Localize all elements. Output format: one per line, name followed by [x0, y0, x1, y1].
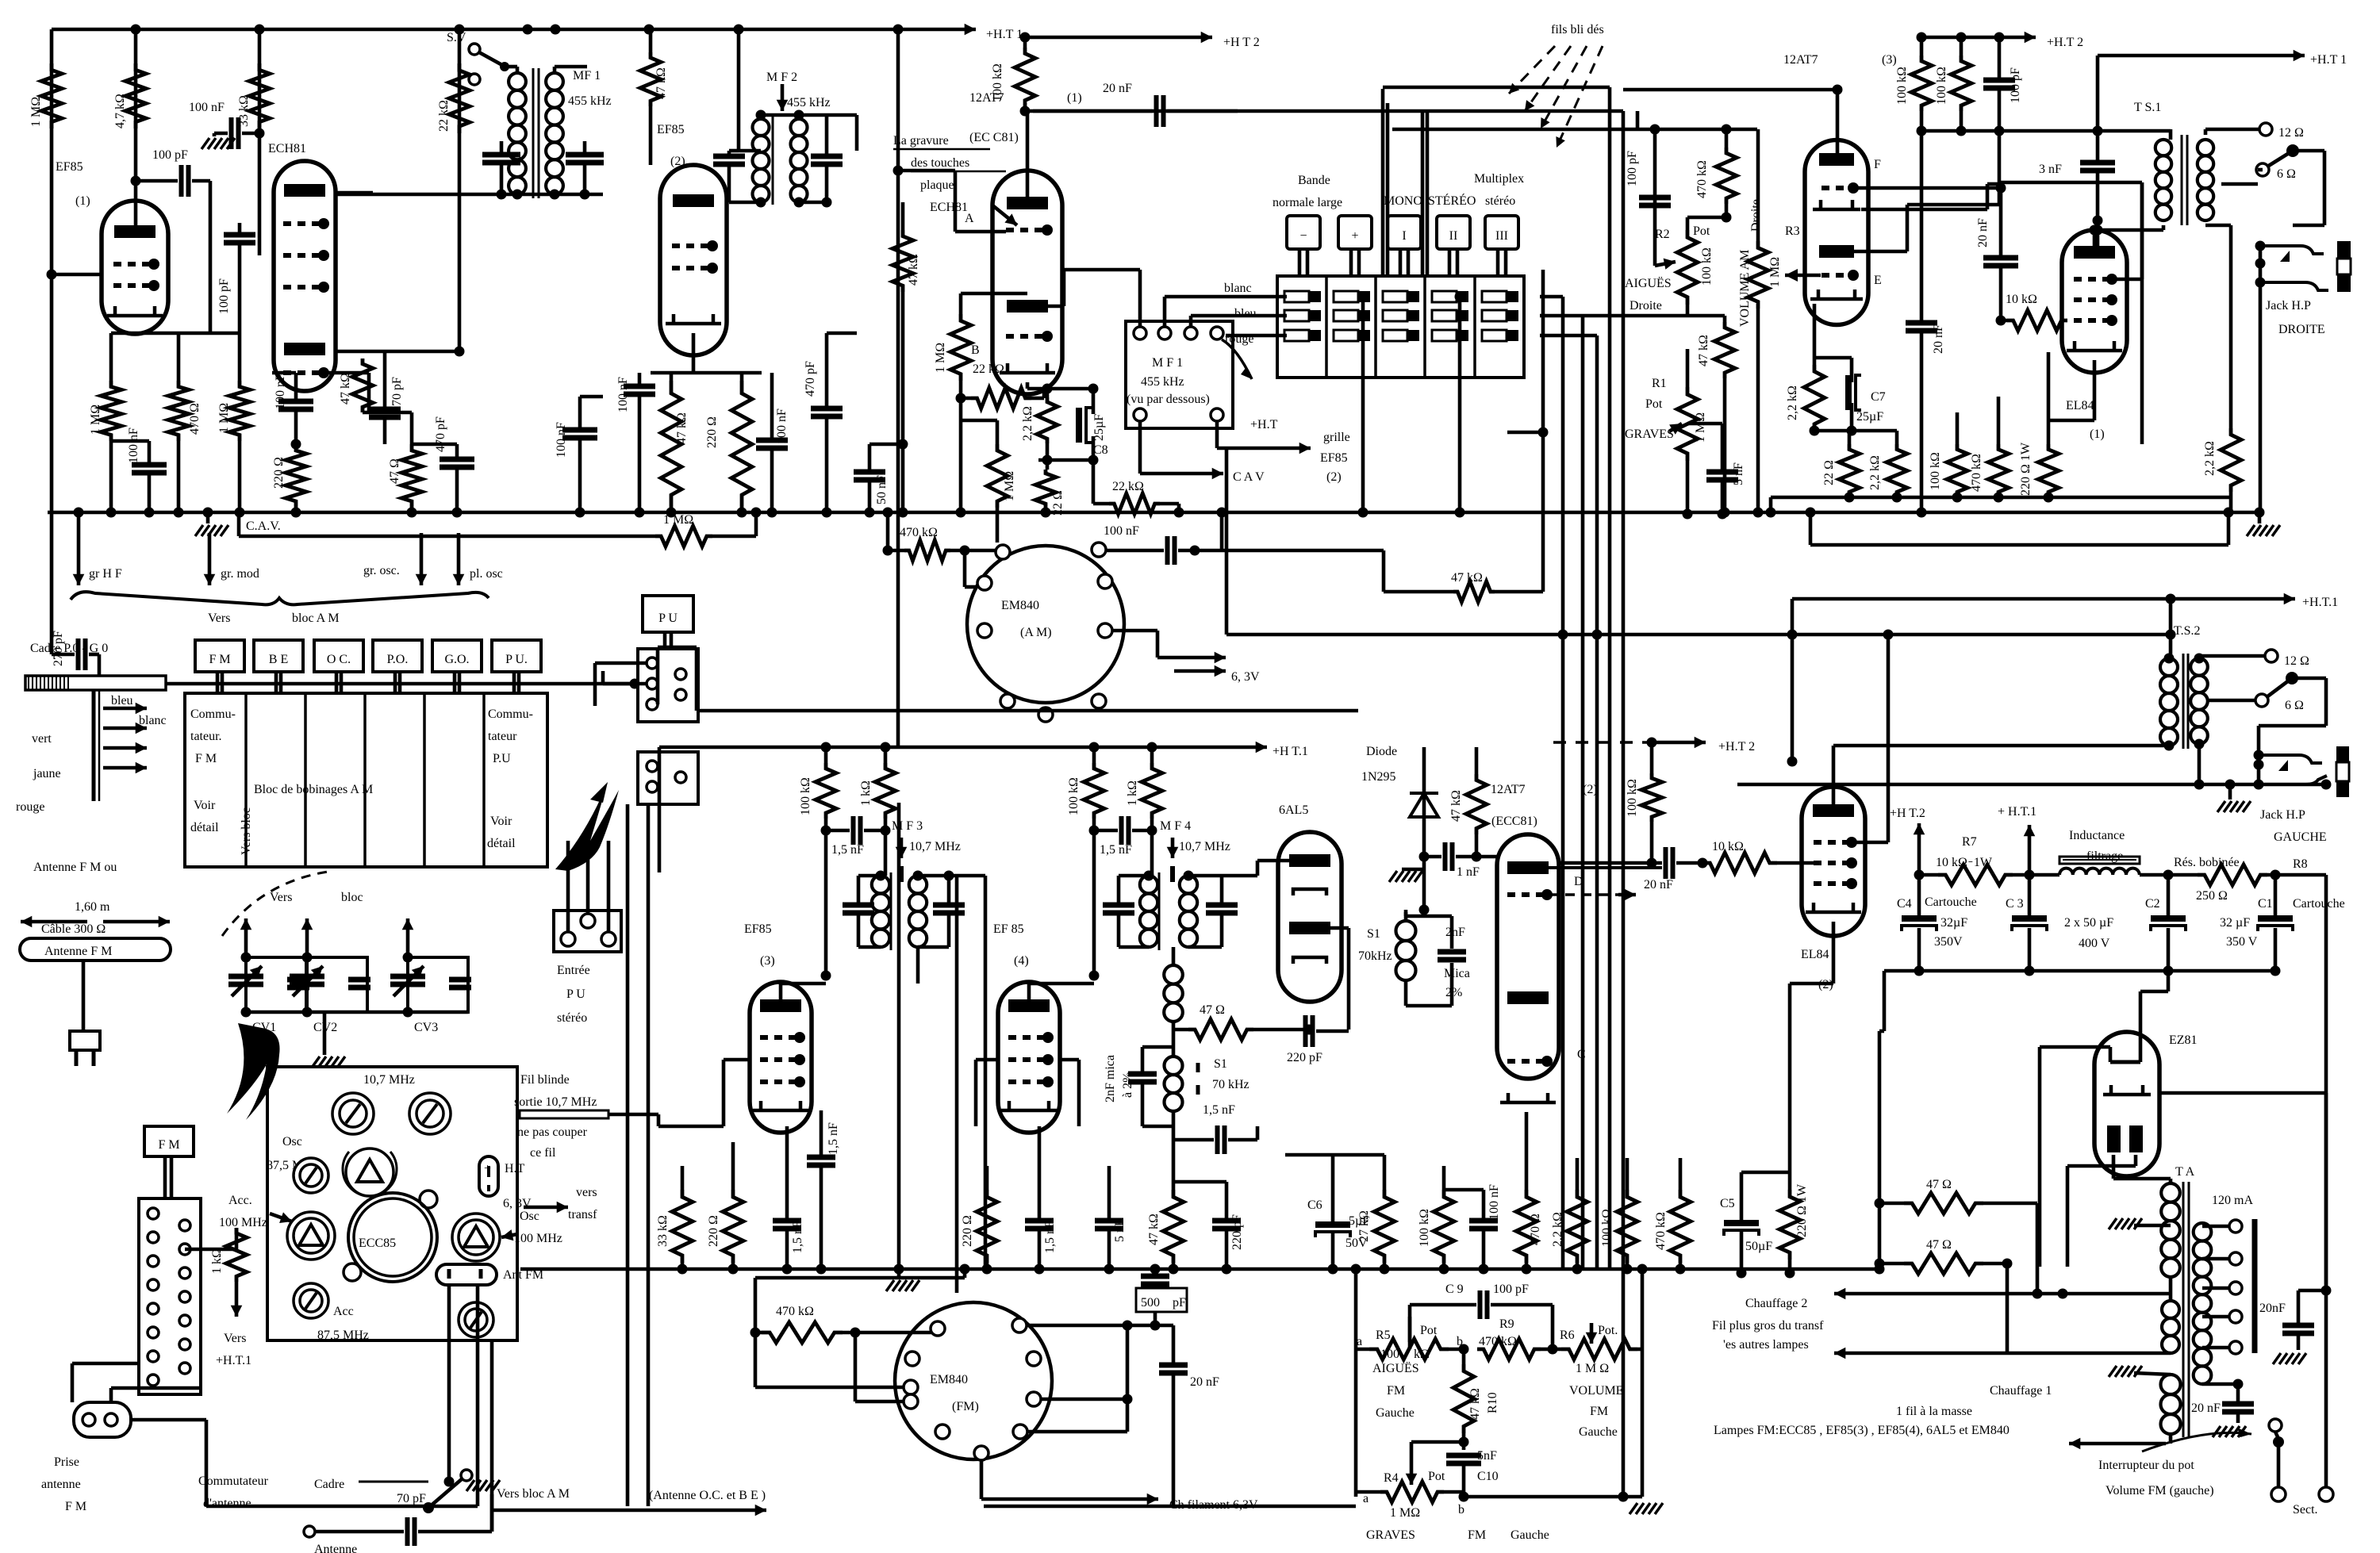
- wire bottom pot rail: [1464, 1495, 1642, 1499]
- svg-text:C8: C8: [1093, 443, 1108, 457]
- resistor 100 kOhm e: [1617, 1190, 1637, 1263]
- svg-text:100 kΩ: 100 kΩ: [1929, 452, 1942, 490]
- svg-text:transf: transf: [568, 1208, 597, 1221]
- svg-text:Gauche: Gauche: [1376, 1406, 1415, 1420]
- svg-text:STÉRÉO: STÉRÉO: [1428, 193, 1476, 208]
- svg-text:6AL5: 6AL5: [1279, 803, 1308, 817]
- svg-text:47 kΩ: 47 kΩ: [1147, 1214, 1161, 1245]
- svg-text:Antenne F M ou: Antenne F M ou: [33, 861, 117, 874]
- svg-text:G.O.: G.O.: [444, 653, 469, 666]
- svg-text:100 pF: 100 pF: [2009, 67, 2022, 103]
- svg-text:100 nF: 100 nF: [1487, 1184, 1501, 1220]
- svg-text:P U: P U: [566, 987, 585, 1001]
- capacitor 1,5 nF MF3: [851, 816, 856, 845]
- capacitor 50 nF: [854, 470, 885, 475]
- wire MF4 to 6AL5: [1222, 874, 1257, 878]
- MF4 right cap: [1206, 903, 1238, 908]
- wire PU lower connector: [638, 752, 698, 804]
- wire F grid out: [1856, 186, 2001, 190]
- ground CV row: [323, 1012, 327, 1055]
- psu bottom rail: [1884, 969, 2275, 973]
- transformer MF1 primary coil: [509, 73, 526, 194]
- resistor 47 kOhm k2: [661, 381, 681, 508]
- svg-text:(2): (2): [1583, 783, 1598, 796]
- svg-text:3 nF: 3 nF: [2039, 163, 2062, 176]
- switch units bank: [1277, 276, 1524, 378]
- wires entree PU up: [566, 911, 570, 932]
- svg-text:Fil blinde: Fil blinde: [520, 1073, 570, 1087]
- capacitor C10 5nF: [1462, 1433, 1466, 1450]
- svg-text:1 MΩ: 1 MΩ: [1390, 1506, 1420, 1520]
- svg-text:10,7 MHz: 10,7 MHz: [909, 840, 961, 853]
- svg-text:250 Ω: 250 Ω: [2196, 889, 2228, 903]
- svg-text:Volume FM (gauche): Volume FM (gauche): [2106, 1484, 2214, 1497]
- wire 100pF to lower area: [209, 181, 213, 333]
- svg-text:100 pF: 100 pF: [217, 278, 231, 314]
- wire TA primary top from EZ81: [2169, 1277, 2173, 1301]
- wire cathode1 out: [1861, 208, 1987, 212]
- wire EF85(4) g2 right: [1060, 1058, 1079, 1062]
- svg-text:DROITE: DROITE: [2278, 323, 2325, 336]
- capacitor 20nF psu: [2282, 1323, 2314, 1329]
- wire MF2 sec to 12AT7 grid: [827, 113, 857, 117]
- svg-text:C5: C5: [1720, 1197, 1735, 1210]
- svg-text:2,2 kΩ: 2,2 kΩ: [1868, 455, 1882, 490]
- svg-text:20 nF: 20 nF: [1644, 878, 1673, 892]
- svg-text:47 kΩ: 47 kΩ: [1697, 335, 1710, 366]
- PU stem: [663, 632, 667, 649]
- MF2 left cap: [713, 154, 745, 159]
- svg-text:AIGUËS: AIGUËS: [1625, 276, 1672, 290]
- wire left heater vertical: [1878, 1031, 1882, 1263]
- wire EL84(1) cathode down: [2093, 360, 2097, 420]
- svg-text:5 nF: 5 nF: [1113, 1219, 1127, 1242]
- TA ground 2: [2109, 1366, 2142, 1377]
- tube 6AL5: [1278, 832, 1342, 1002]
- svg-text:Cartouche: Cartouche: [2293, 897, 2345, 911]
- svg-text:gr. osc.: gr. osc.: [363, 564, 400, 577]
- svg-text:Osc: Osc: [520, 1210, 539, 1223]
- capacitor 1,5 nF MF4: [1119, 816, 1124, 845]
- capacitor 100 nF mid: [278, 399, 313, 405]
- svg-text:10,7 MHz: 10,7 MHz: [363, 1073, 415, 1087]
- capacitor 20 nF fm: [1155, 1324, 1173, 1328]
- wire R6 right riser: [1641, 1269, 1645, 1497]
- svg-text:12 Ω: 12 Ω: [2278, 126, 2304, 140]
- svg-text:F M: F M: [209, 653, 230, 666]
- wire grille EF85(2) out: [1215, 421, 1219, 448]
- svg-text:400 V: 400 V: [2079, 937, 2110, 950]
- svg-text:fils bli dés: fils bli dés: [1551, 23, 1604, 36]
- svg-text:(1): (1): [2090, 428, 2105, 441]
- svg-text:T A: T A: [2175, 1165, 2195, 1179]
- cadre stem: [92, 690, 96, 801]
- antenne FM stadium: [20, 938, 171, 961]
- arrow chauffage1: [2169, 1434, 2173, 1444]
- potentiometer R6: [1561, 1339, 1637, 1359]
- wire MF3 sec down: [916, 947, 920, 984]
- wire psu sect vertical: [2324, 1093, 2328, 1290]
- svg-text:rouge: rouge: [16, 800, 44, 814]
- capacitor 100 nF right: [562, 428, 597, 433]
- svg-text:10,7 MHz: 10,7 MHz: [1179, 840, 1230, 853]
- resistor 100 kOhm 12AT7(2)g: [1434, 1190, 1454, 1263]
- svg-text:100 nF: 100 nF: [775, 408, 789, 444]
- wire rouge feed: [1226, 334, 1287, 338]
- svg-text:vert: vert: [32, 732, 52, 746]
- resistor 1 MOhm no2: [229, 381, 250, 441]
- svg-text:S1: S1: [1214, 1057, 1227, 1071]
- svg-text:+H T.1: +H T.1: [1273, 745, 1308, 758]
- svg-text:La gravure: La gravure: [893, 134, 949, 148]
- svg-text:22 kΩ: 22 kΩ: [973, 362, 1004, 376]
- wire y868 long: [166, 682, 638, 686]
- wire 33k vertical: [258, 29, 262, 255]
- svg-text:Jack H.P: Jack H.P: [2266, 299, 2311, 313]
- wire bundle verticals: [1561, 297, 1565, 1269]
- svg-text:1 kΩ: 1 kΩ: [210, 1248, 224, 1274]
- wire TA w2 connections: [2063, 1292, 2171, 1296]
- svg-text:6, 3V: 6, 3V: [1231, 670, 1260, 684]
- svg-text:47 kΩ: 47 kΩ: [907, 254, 920, 286]
- resistor 100 kOhm MF4: [1084, 763, 1104, 819]
- svg-text:II: II: [1449, 229, 1458, 243]
- transformer TS2 core: [2182, 654, 2185, 749]
- resistor 2,2 kOhm row: [1887, 444, 1907, 497]
- svg-text:47 kΩ: 47 kΩ: [1468, 1388, 1482, 1420]
- svg-text:Mica: Mica: [1444, 967, 1470, 980]
- resistor 1 kOhm FM: [226, 1228, 247, 1282]
- resistor 27 kOhm: [1374, 1190, 1395, 1263]
- arrow chauffage2 second: [2007, 1352, 2171, 1356]
- svg-text:(1): (1): [75, 194, 90, 208]
- svg-text:470 Ω: 470 Ω: [188, 403, 202, 435]
- return loop below bus: [1806, 508, 1816, 518]
- svg-text:(1): (1): [1067, 91, 1082, 105]
- svg-text:CV1: CV1: [252, 1021, 276, 1034]
- wiper arrow R2: [1655, 262, 1676, 266]
- capacitor 500 pF: [1150, 1264, 1161, 1275]
- svg-text:Ant FM: Ant FM: [503, 1268, 543, 1282]
- brace vers bloc AM: [71, 592, 489, 604]
- entree PU stereo box: [554, 911, 621, 952]
- svg-text:100 nF: 100 nF: [1104, 524, 1139, 538]
- tube EF85(4): [998, 982, 1060, 1133]
- arrows 6,3V: [1157, 656, 1226, 660]
- resistor 47 kOhm below R2: [1714, 322, 1735, 378]
- svg-text:33 kΩ: 33 kΩ: [656, 1215, 670, 1247]
- svg-text:Gauche: Gauche: [1511, 1528, 1549, 1542]
- svg-text:F M: F M: [65, 1500, 86, 1513]
- svg-text:2,2 kΩ: 2,2 kΩ: [1786, 385, 1799, 420]
- transformer MF1 secondary coil: [546, 73, 563, 194]
- svg-text:D: D: [1574, 875, 1583, 888]
- resistor 22 Ohm: [1839, 444, 1860, 497]
- wire MF1box to tube B anode: [1138, 270, 1142, 327]
- capacitor 220 pF S1: [1303, 1015, 1308, 1047]
- svg-text:F M: F M: [158, 1138, 179, 1152]
- svg-text:4,7 kΩ: 4,7 kΩ: [113, 94, 127, 128]
- svg-text:22 Ω: 22 Ω: [1822, 460, 1836, 485]
- svg-text:gr. mod: gr. mod: [221, 567, 259, 581]
- svg-text:tateur: tateur: [488, 730, 517, 743]
- wire 12AT7(1) grid A left: [955, 230, 1006, 234]
- svg-text:ECH81: ECH81: [930, 201, 968, 214]
- svg-text:Cadre P.0 - G 0: Cadre P.0 - G 0: [30, 642, 108, 655]
- tube 12AT7(1): [992, 171, 1062, 394]
- wire pot left riser: [1354, 1269, 1358, 1497]
- svg-text:EF85: EF85: [1320, 451, 1348, 465]
- svg-text:R1: R1: [1652, 377, 1667, 390]
- svg-text:H.T: H.T: [505, 1162, 525, 1175]
- svg-text:P.O.: P.O.: [387, 653, 409, 666]
- svg-text:32 µF: 32 µF: [2220, 916, 2250, 930]
- svg-text:GRAVES: GRAVES: [1625, 428, 1674, 441]
- capacitor 100 pF right: [1983, 78, 2015, 83]
- svg-text:bleu: bleu: [111, 694, 133, 707]
- bloc de bobinages AM box: [185, 693, 547, 867]
- TA primary HV winding: [2161, 1183, 2180, 1277]
- svg-text:20nF: 20nF: [2259, 1302, 2286, 1315]
- svg-text:+: +: [1351, 229, 1358, 243]
- S1 coil under MF4: [1164, 965, 1183, 1022]
- capacitor MF1 left: [482, 152, 520, 158]
- svg-text:2nF: 2nF: [1445, 926, 1465, 939]
- svg-text:EZ81: EZ81: [2169, 1033, 2198, 1047]
- wire TS1 sec tap: [2221, 182, 2258, 186]
- trimmer bottom center: [459, 1302, 493, 1337]
- wire TS1 supply: [1999, 129, 2171, 133]
- rail y627: [1771, 496, 2231, 500]
- svg-text:des touches: des touches: [911, 156, 969, 170]
- svg-text:220 Ω: 220 Ω: [707, 1215, 720, 1247]
- svg-text:stéréo: stéréo: [557, 1011, 587, 1025]
- svg-text:220 Ω: 220 Ω: [705, 416, 719, 448]
- resistor 2,2 kOhm right: [2221, 428, 2241, 492]
- svg-text:47 kΩ: 47 kΩ: [654, 67, 668, 99]
- svg-text:normale large: normale large: [1273, 196, 1342, 209]
- tube EL84(1): [2062, 230, 2127, 373]
- tube EF85(1): [102, 201, 168, 334]
- PU box: [643, 596, 693, 632]
- svg-text:1,5 nF: 1,5 nF: [1100, 843, 1132, 857]
- svg-text:2nF mica: 2nF mica: [1104, 1055, 1117, 1102]
- svg-text:(ECC81): (ECC81): [1491, 815, 1537, 828]
- svg-text:C7: C7: [1871, 390, 1886, 404]
- wire EZ81 right to sect riser: [2159, 1091, 2326, 1095]
- wire 12AT7(1) anode up: [1026, 111, 1030, 197]
- wire C8 cluster mid: [1038, 458, 1093, 462]
- resistor R10 47k: [1453, 1364, 1474, 1433]
- wire R2 bottom to bank row: [1686, 305, 1690, 316]
- button II: [1437, 216, 1470, 249]
- wire CAV out: [1138, 421, 1142, 474]
- svg-text:C1: C1: [2258, 897, 2273, 911]
- variable capacitor CV1: [246, 957, 306, 1012]
- svg-text:Commutateur: Commutateur: [198, 1474, 269, 1488]
- svg-text:Commu-: Commu-: [190, 707, 236, 721]
- svg-text:EF85: EF85: [744, 922, 772, 936]
- svg-text:6 Ω: 6 Ω: [2277, 167, 2296, 181]
- svg-text:Voir: Voir: [490, 815, 512, 828]
- MF3 resonant cap left: [843, 903, 874, 908]
- svg-text:détail: détail: [190, 821, 219, 834]
- svg-text:Antenne: Antenne: [314, 1543, 357, 1553]
- svg-text:Rés. bobinée: Rés. bobinée: [2174, 856, 2240, 869]
- svg-text:100 nF: 100 nF: [274, 374, 287, 409]
- svg-text:Vers: Vers: [208, 612, 230, 625]
- wire y800 long line: [1226, 633, 2171, 637]
- wire blanc feed: [1163, 297, 1167, 327]
- svg-text:470 kΩ: 470 kΩ: [1695, 160, 1709, 198]
- svg-text:Chauffage 1: Chauffage 1: [1990, 1384, 2052, 1398]
- svg-text:FM: FM: [1468, 1528, 1486, 1542]
- wire prise to connector: [71, 1363, 75, 1402]
- svg-text:Osc: Osc: [282, 1135, 302, 1148]
- svg-text:Cartouche: Cartouche: [1925, 895, 1977, 909]
- svg-text:Pot: Pot: [1645, 397, 1663, 411]
- MF3 right cap: [933, 903, 965, 908]
- potentiometer R2 100k AIGUES Droite: [1677, 230, 1698, 305]
- svg-text:Antenne F M: Antenne F M: [44, 945, 112, 958]
- svg-text:F M: F M: [195, 752, 217, 765]
- svg-text:Gauche: Gauche: [1579, 1425, 1618, 1439]
- FM ground bus: [520, 1267, 1879, 1271]
- potentiometer R4: [1380, 1482, 1444, 1502]
- wire EL84(2) cathode C5: [1832, 922, 1836, 984]
- wire EF85(1) anode top: [134, 201, 138, 225]
- capacitor 70 pF: [369, 407, 401, 412]
- svg-text:220 Ω: 220 Ω: [961, 1215, 974, 1247]
- svg-text:Vers bloc A M: Vers bloc A M: [497, 1487, 570, 1501]
- wire MF3 left rail: [824, 830, 828, 976]
- wire 4,7k vertical: [134, 29, 138, 201]
- svg-text:10 kΩ: 10 kΩ: [2006, 293, 2037, 306]
- arrow gr HF: [77, 512, 81, 585]
- svg-text:+ H.T.1: + H.T.1: [1998, 805, 2036, 819]
- svg-text:EL84: EL84: [1801, 948, 1829, 961]
- wire PU exits: [595, 661, 647, 665]
- capacitor 1 nF: [1443, 842, 1448, 871]
- svg-text:Diode: Diode: [1366, 745, 1397, 758]
- svg-text:bloc A M: bloc A M: [292, 612, 340, 625]
- resistor R7 10k: [1938, 865, 2013, 885]
- resistor 220 Ohm 1W row: [2038, 444, 2059, 497]
- svg-text:Multiplex: Multiplex: [1474, 172, 1524, 186]
- long verticals mid: [897, 803, 901, 1269]
- capacitor 100 nF k4: [756, 438, 788, 443]
- resistor 100 kOhm mid: [1641, 773, 1662, 822]
- svg-text:1 kΩ: 1 kΩ: [1126, 780, 1139, 806]
- svg-text:O C.: O C.: [327, 653, 351, 666]
- wire MF1 top links: [505, 65, 517, 69]
- svg-text:470 pF: 470 pF: [434, 416, 447, 452]
- svg-text:2,2 kΩ: 2,2 kΩ: [2203, 441, 2217, 476]
- MF2 top/bottom links: [729, 149, 739, 153]
- svg-text:Pot: Pot: [1428, 1470, 1445, 1483]
- svg-text:Voir: Voir: [194, 799, 216, 812]
- MF4 coils: [1140, 876, 1157, 947]
- bank unit droppers: [1361, 297, 1365, 512]
- transformer TS2 primary: [2160, 658, 2178, 746]
- svg-text:B E: B E: [269, 653, 288, 666]
- wires bank to right bundle: [1540, 295, 1563, 299]
- capacitor 5 nF EF85(4): [1095, 1218, 1123, 1224]
- trimmer left: [294, 1158, 328, 1193]
- ground jack gauche: [2225, 780, 2236, 790]
- svg-text:350V: 350V: [1934, 935, 1963, 949]
- svg-text:P U: P U: [658, 612, 678, 625]
- svg-text:27 kΩ: 27 kΩ: [1357, 1210, 1371, 1242]
- svg-text:EM840: EM840: [1001, 599, 1039, 612]
- svg-text:III: III: [1495, 229, 1508, 243]
- svg-text:R10: R10: [1486, 1392, 1499, 1413]
- svg-text:2%: 2%: [1445, 986, 1462, 999]
- MF3 coils: [872, 876, 889, 947]
- TS1 sec bottom: [2205, 224, 2231, 228]
- button plus: [1338, 216, 1372, 249]
- resistor 22 kOhm: [449, 63, 470, 133]
- svg-text:C.A.V.: C.A.V.: [246, 520, 281, 533]
- transformer TS1 core: [2181, 135, 2183, 225]
- wire top +H.T1 bus: [52, 28, 908, 32]
- wire EF85(3) anode up: [779, 984, 783, 999]
- switch button OC: [314, 640, 363, 672]
- FM box: [144, 1126, 194, 1156]
- triangle top: [346, 1148, 393, 1196]
- label Sect: [2319, 1487, 2333, 1501]
- svg-text:(2): (2): [1326, 470, 1342, 484]
- capacitor 470 pF: [811, 406, 843, 412]
- switch button PO: [373, 640, 422, 672]
- dashed arrows fils blindes: [1509, 46, 1555, 94]
- resistor 22 kOhm horizontal: [971, 388, 1031, 408]
- capacitor MF1 right: [566, 152, 604, 158]
- wire PU stereo long pair: [626, 804, 630, 1506]
- svg-text:100 kΩ: 100 kΩ: [1418, 1209, 1431, 1247]
- svg-text:C: C: [1577, 1048, 1586, 1061]
- svg-text:I: I: [1402, 229, 1406, 243]
- transformer MF1 core: [532, 68, 535, 198]
- arrow pl osc: [457, 533, 461, 585]
- wire left vertical main: [50, 29, 54, 512]
- wire top loop y110: [1383, 86, 1610, 90]
- svg-text:455 kHz: 455 kHz: [1141, 375, 1184, 389]
- wire ECH81 right exits: [336, 350, 459, 354]
- svg-text:M F 3: M F 3: [892, 819, 923, 833]
- jack connector hatched: [2337, 241, 2351, 259]
- triangle right: [452, 1214, 500, 1261]
- C.A.V. line: [239, 535, 655, 539]
- svg-text:120 mA: 120 mA: [2212, 1194, 2253, 1207]
- svg-text:Droite: Droite: [1749, 199, 1763, 232]
- svg-text:1,5 nF: 1,5 nF: [827, 1122, 840, 1155]
- svg-text:12 Ω: 12 Ω: [2284, 654, 2309, 668]
- svg-text:VOLUME: VOLUME: [1569, 1384, 1623, 1398]
- svg-text:2,2 kΩ: 2,2 kΩ: [1551, 1212, 1564, 1247]
- wire long mid horizontal y140: [1033, 109, 1623, 113]
- svg-text:stéréo: stéréo: [1485, 194, 1515, 208]
- svg-text:Prise: Prise: [54, 1455, 79, 1469]
- TS1 primary bottom to EL84 anode: [2162, 225, 2166, 230]
- svg-text:R6: R6: [1560, 1329, 1575, 1342]
- tube ECH81: [274, 161, 336, 391]
- svg-text:MF 1: MF 1: [573, 69, 601, 82]
- wire +H.T.1 FM rail: [659, 746, 1248, 750]
- svg-text:Pot.: Pot.: [1598, 1324, 1618, 1337]
- trimmer top b: [409, 1093, 451, 1134]
- svg-text:C6: C6: [1307, 1198, 1322, 1212]
